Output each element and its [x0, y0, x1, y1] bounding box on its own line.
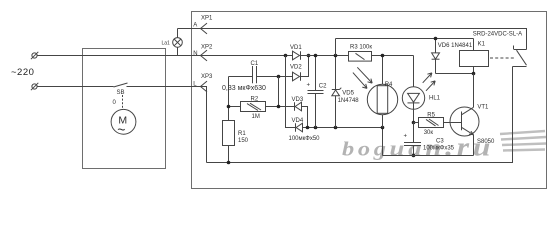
ground rail: [383, 155, 474, 157]
zener VD5: [335, 56, 337, 90]
motor M1: [111, 109, 136, 134]
node dot base/R5/C3: [412, 121, 416, 125]
R5 right lead to base: [444, 122, 462, 124]
node dot R2 left: [227, 105, 231, 109]
svg-text:XP1: XP1: [201, 16, 213, 22]
diode VD6: [435, 39, 437, 53]
svg-text:100мкФх35: 100мкФх35: [423, 146, 455, 152]
watermark swoosh: [500, 131, 546, 151]
svg-text:1М: 1М: [252, 114, 260, 120]
wire XP3 down to L rail: [201, 87, 207, 163]
transistor VT1: [450, 107, 479, 136]
mechanical link dashed: [122, 95, 124, 110]
resistor R1: [223, 121, 235, 146]
svg-text:boguan.ru: boguan.ru: [342, 133, 494, 162]
wire L (terminal2 to switch): [37, 86, 113, 88]
node dot C2 bottom: [314, 126, 318, 130]
svg-text:SB: SB: [117, 90, 125, 96]
capacitor C3: [413, 123, 415, 143]
svg-text:HL1: HL1: [429, 96, 441, 102]
svg-text:VD2: VD2: [290, 64, 302, 70]
svg-text:C3: C3: [436, 138, 444, 144]
minus bus: [303, 128, 383, 156]
lamp La1: [173, 38, 183, 48]
LED HL1: [413, 56, 415, 87]
relay K1 coil: [460, 51, 489, 67]
svg-text:0: 0: [113, 100, 117, 106]
node dot VD1 anode: [284, 54, 288, 58]
svg-text:R3 100к: R3 100к: [350, 45, 372, 51]
capacitor C2: [315, 56, 317, 91]
node dot R4 bottom: [381, 126, 385, 130]
svg-text:0,33 мкФх630: 0,33 мкФх630: [222, 85, 266, 92]
wire N (terminal1 to XP2): [37, 55, 200, 57]
diode VD1: [293, 51, 300, 60]
wire N to bridge: [201, 55, 293, 57]
svg-text:C1: C1: [251, 61, 259, 67]
svg-text:~220: ~220: [11, 67, 34, 78]
resistor R2: [241, 102, 266, 112]
svg-text:R5: R5: [427, 112, 435, 118]
terminal 1 (top input): [32, 53, 37, 58]
capacitor C1: [252, 66, 254, 83]
contact blade: [517, 50, 527, 65]
svg-text:VT1: VT1: [477, 105, 489, 111]
VD3 anode drop: [302, 107, 308, 128]
lamp bottom lead: [177, 47, 179, 55]
L bottom rail: [207, 67, 513, 163]
wire VD6 to relay bottom: [436, 73, 474, 75]
node dot R1 bottom: [227, 161, 231, 165]
top rail A: [178, 29, 527, 50]
relay contact fixed lead: [514, 49, 527, 51]
diode VD3: [294, 102, 296, 111]
wire node to C1: [229, 76, 253, 78]
node dot C3 bottom: [412, 154, 416, 158]
light arrows to R4: [357, 67, 372, 83]
node dot VD3 cathode line: [277, 105, 281, 109]
svg-text:150: 150: [238, 138, 249, 144]
node dot VD3 on bus: [306, 126, 310, 130]
R1 bottom lead: [228, 146, 230, 163]
main enclosure box: [192, 12, 547, 189]
R2 left lead: [229, 106, 241, 108]
svg-text:R2: R2: [251, 96, 259, 102]
resistor R3: [349, 52, 372, 62]
svg-text:+: +: [404, 133, 408, 139]
svg-text:N: N: [193, 51, 197, 57]
switch SB blade: [114, 83, 128, 87]
plus bus: [301, 55, 349, 57]
wire L (switch to XP3): [127, 86, 201, 88]
contact anvil tick: [513, 46, 515, 50]
svg-text:XP2: XP2: [201, 44, 213, 50]
svg-text:C2: C2: [319, 84, 327, 90]
connector XP2: [201, 50, 208, 61]
svg-text:VD1: VD1: [290, 45, 302, 51]
svg-text:K1: K1: [478, 42, 486, 48]
svg-text:R1: R1: [238, 131, 246, 137]
contact bottom lead: [513, 66, 527, 68]
VD2 cathode riser: [301, 56, 309, 77]
svg-text:R4: R4: [385, 82, 393, 88]
relay link dashed: [490, 57, 514, 59]
node dot VD2 top: [307, 54, 311, 58]
watermark boguan.ru: [342, 133, 494, 162]
R2 right lead to VD3: [266, 106, 295, 108]
svg-text:VD3: VD3: [292, 97, 304, 103]
relay supply rail: [336, 38, 474, 40]
node vertical C1/R2/R1: [228, 77, 230, 121]
node dot VD5 bottom: [334, 126, 338, 130]
svg-text:XP3: XP3: [201, 74, 213, 80]
wire C1 to AC2 node: [257, 76, 293, 78]
HL1 emission arrows: [423, 73, 432, 83]
svg-text:30к: 30к: [424, 130, 434, 136]
svg-text:S8050: S8050: [477, 139, 495, 145]
terminal 2 (bottom input): [32, 84, 37, 89]
svg-text:1N4748: 1N4748: [338, 98, 360, 104]
svg-text:VD6 1N4841: VD6 1N4841: [438, 43, 473, 49]
svg-text:SRD-24VDC-SL-A: SRD-24VDC-SL-A: [473, 32, 522, 38]
connector XP1: [201, 23, 208, 34]
lamp top lead: [177, 29, 179, 38]
svg-text:A: A: [193, 23, 197, 29]
node dot AC2: [277, 75, 281, 79]
R5 left lead: [414, 122, 419, 124]
connector XP3: [201, 81, 208, 92]
N riser down to VD4: [286, 56, 296, 128]
photoresistor R4: [382, 56, 384, 85]
svg-text:VD5: VD5: [342, 90, 354, 96]
svg-text:100мкФх50: 100мкФх50: [289, 136, 321, 142]
svg-text:La1: La1: [162, 41, 171, 47]
svg-text:+: +: [307, 83, 311, 89]
AC2 riser down: [278, 77, 280, 107]
motor enclosure box: [83, 49, 166, 169]
diode VD2: [293, 72, 300, 81]
svg-text:~: ~: [117, 122, 125, 138]
svg-text:VD4: VD4: [292, 118, 304, 124]
diode VD4: [295, 123, 297, 132]
resistor R5: [419, 118, 444, 128]
